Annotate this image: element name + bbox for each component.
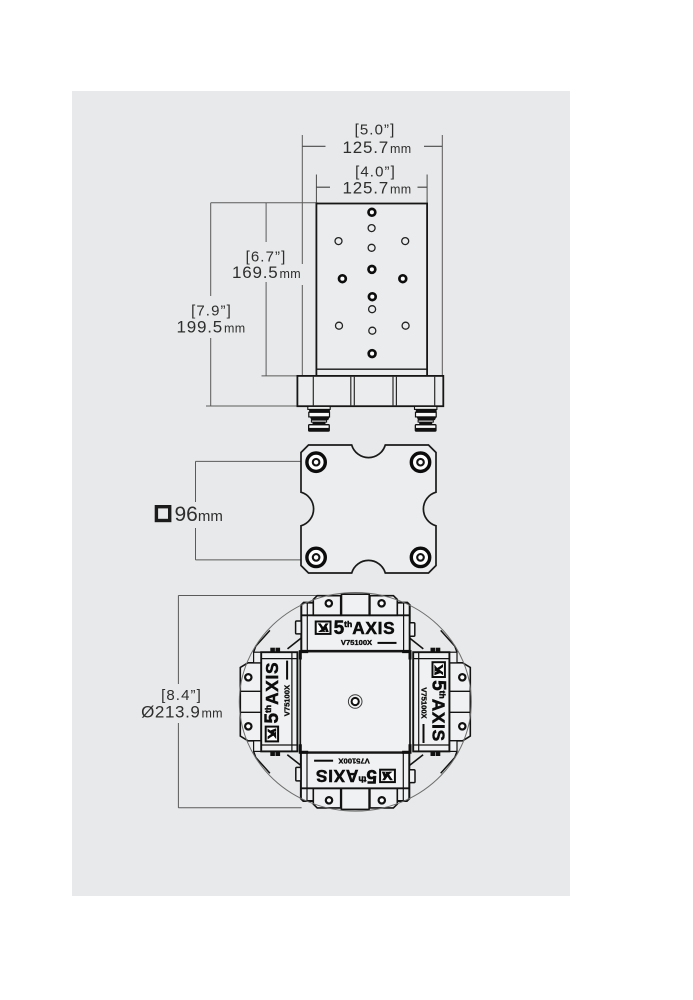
black end tabs bottom [270,751,275,756]
bolt holes [307,453,430,567]
dim 96 vertical line [195,461,197,502]
extension line 5.0 left [301,135,303,264]
base rectangle [297,376,443,406]
svg-text:5thAXIS: 5thAXIS [334,618,396,639]
svg-text:[8.4”]: [8.4”] [161,687,202,704]
left jaw body [261,652,297,751]
dim 96 bottom tick [196,559,309,561]
dim line 7.9 vertical [210,203,212,296]
left jaw logo (rotated -90) [262,661,291,742]
dimension line 4.0 [316,186,330,188]
black end tabs top [270,648,275,653]
square symbol [156,507,169,521]
dash right of V75100X [378,642,397,644]
dim 8.4 top tick [178,595,317,597]
corner diagonals [288,638,301,649]
plate outline [301,445,436,573]
inner verticals [306,603,308,651]
svg-text:[5.0”]: [5.0”] [355,122,396,139]
jaw body [301,603,409,651]
side tab right [410,623,415,637]
extension line 4.0 left [315,175,317,204]
side tab left [296,621,302,634]
logo block definition (top orientation) [316,618,397,647]
extension line 5.0 right [441,135,443,376]
inner vertical near body inner edge [291,652,293,751]
black ring 1 [309,409,330,412]
dimension line 5.0 [302,145,325,147]
pull stud right [415,406,437,431]
white groove 2 [311,420,326,422]
right jaw logo (rotated 90) [419,662,448,743]
dim 8.4 bottom tick [178,807,301,809]
dim 8.4 vertical [177,596,179,685]
square corner marks [300,652,410,753]
bold holes [339,209,406,357]
flange [308,424,330,432]
vise body rectangle [316,204,427,376]
bottom tick 7.9 [206,405,297,407]
tab circles [326,600,332,606]
base inner verticals [313,376,434,406]
step rects at plate ends [254,652,262,663]
dim 96 top tick [196,460,309,462]
top tick of 6.7/7.9 dims [211,202,318,204]
inner horizontals [261,658,297,660]
top jaw plate tabs [313,596,340,616]
extension line 4.0 right [426,175,428,204]
gray panel [72,91,570,896]
black ring 3 [313,422,326,424]
dim line 6.7 vertical [265,203,267,242]
white groove [309,412,330,417]
plate line [301,614,409,616]
pull stud left [308,406,330,431]
svg-text:V75100X: V75100X [341,638,372,647]
outer corner diagonals [254,630,270,652]
black ring 2 [310,417,330,420]
thin holes [335,225,409,335]
central square [300,652,410,753]
bottom jaw logo (rotated 180) [314,757,395,786]
5th axis icon [316,622,331,634]
left jaw plate [240,663,261,741]
body/base step line [316,368,427,370]
jaws get drawn by groups below [288,594,424,651]
bottom jaw [287,753,423,810]
right jaw (mirror of left) [413,630,470,773]
plate circles [245,674,251,680]
bottom tick 6.7 [262,375,303,377]
stud neck [308,406,330,409]
reference ellipse (scaled circle) [239,593,471,812]
center hole [348,695,362,709]
